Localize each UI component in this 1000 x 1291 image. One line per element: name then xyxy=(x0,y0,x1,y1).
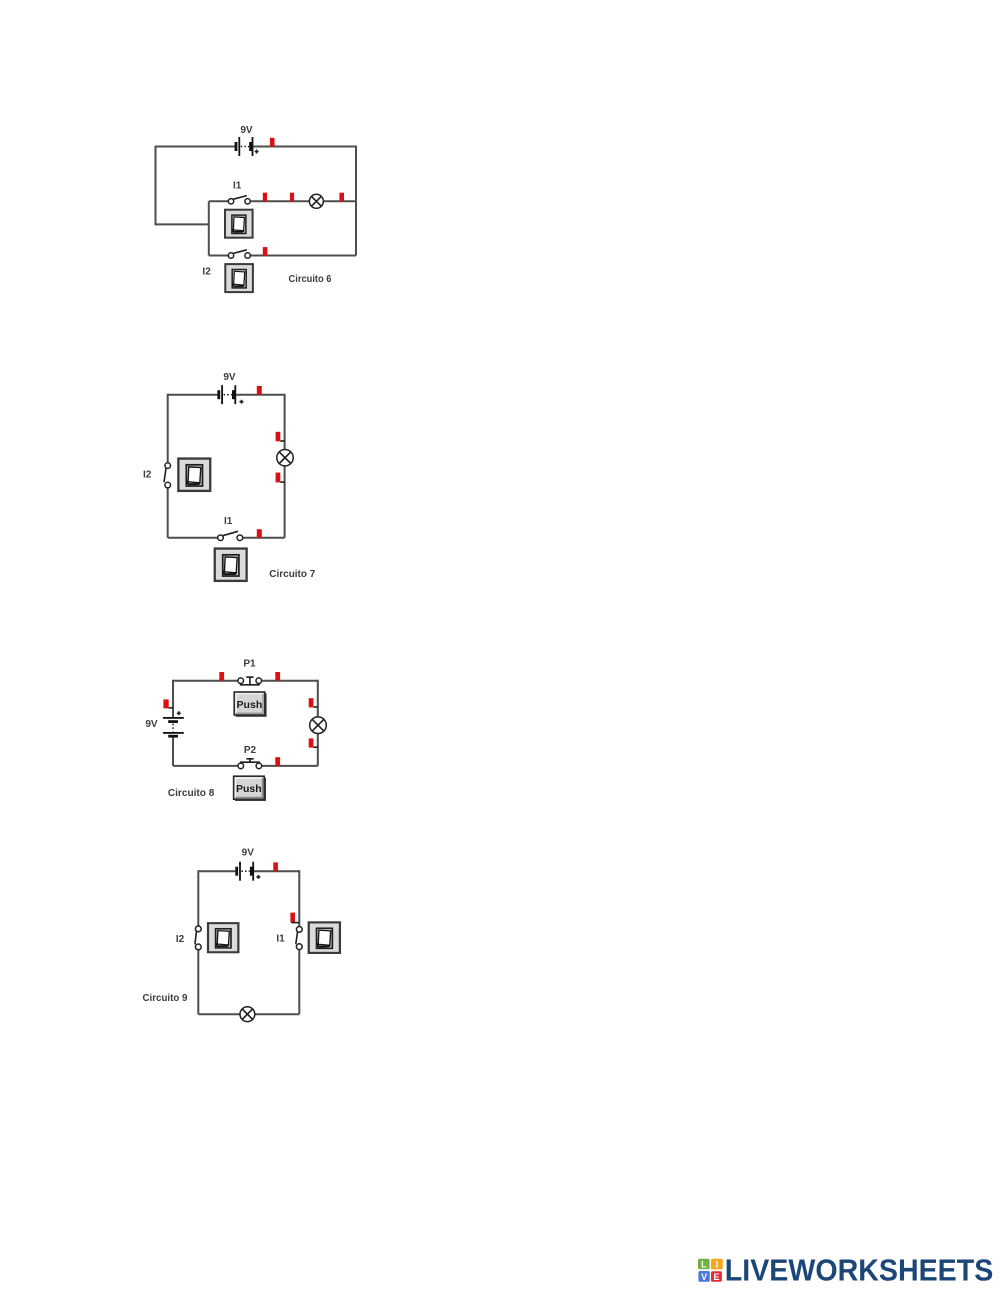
svg-text:I2: I2 xyxy=(202,267,211,278)
svg-text:I1: I1 xyxy=(233,180,242,191)
rocker box I1 (circuit 9) xyxy=(309,922,340,953)
logo square LI green xyxy=(698,1259,710,1270)
svg-text:E: E xyxy=(713,1272,719,1282)
wire C8 left vertical upper xyxy=(172,680,174,718)
svg-text:LIVEWORKSHEETS: LIVEWORKSHEETS xyxy=(725,1253,994,1287)
svg-text:9V: 9V xyxy=(223,372,236,383)
red marker C6 top wire xyxy=(270,138,275,147)
switch I1 contacts (circuit 9) xyxy=(296,927,302,950)
svg-text:L: L xyxy=(701,1259,707,1269)
wire C8 bottom rail right segment xyxy=(259,765,318,767)
switch I2 contacts (circuit 9) xyxy=(195,926,201,950)
red marker C7 right vertical lower xyxy=(276,473,285,483)
wire C9 right vertical lower xyxy=(298,949,300,1014)
svg-text:I2: I2 xyxy=(143,469,152,480)
push switch P2 contacts (circuit 8) xyxy=(238,759,262,769)
battery B3 9V vertical (circuit 8) xyxy=(163,711,184,737)
lamp L2 (circuit 7) xyxy=(277,450,293,466)
wire C6 top rail left segment xyxy=(156,146,235,148)
switch I1 contacts (circuit 6) xyxy=(228,196,250,204)
logo square V blue xyxy=(698,1271,709,1282)
wire C6 bottom rail right segment xyxy=(250,255,356,257)
rocker box I2 (circuit 6) xyxy=(225,264,253,292)
red marker C7 bottom wire xyxy=(257,529,262,538)
rocker box I2 (circuit 7) xyxy=(178,459,210,491)
wire C7 top rail left segment xyxy=(168,394,218,396)
lamp L3 (circuit 8) xyxy=(310,717,327,734)
wire C9 left vertical lower xyxy=(197,950,199,1015)
svg-text:Circuito 9: Circuito 9 xyxy=(143,992,188,1004)
wire C7 bottom rail left segment xyxy=(168,537,221,539)
red marker C6 middle wire 1 xyxy=(263,193,267,202)
red marker C8 top wire left xyxy=(219,672,224,681)
wire C8 left vertical lower xyxy=(172,736,174,766)
svg-text:Circuito 7: Circuito 7 xyxy=(269,568,315,580)
switch I1 contacts (circuit 7) xyxy=(218,531,243,540)
svg-text:Circuito 8: Circuito 8 xyxy=(168,787,215,799)
wire C9 bottom rail xyxy=(198,1013,299,1015)
push switch P1 contacts (circuit 8) xyxy=(238,677,262,685)
svg-text:P1: P1 xyxy=(243,659,256,670)
lamp L1 (circuit 6) xyxy=(309,194,323,208)
switch I2 contacts (circuit 6) xyxy=(228,250,250,258)
logo square I orange xyxy=(711,1259,723,1270)
red marker C8 top wire right xyxy=(275,672,280,681)
push button box P1 (circuit 8) xyxy=(234,692,266,717)
wire C8 top rail left segment xyxy=(173,680,241,682)
wire C7 bottom rail right segment xyxy=(240,537,285,539)
wire C6 left vertical xyxy=(155,146,157,225)
logo square E red xyxy=(711,1271,722,1282)
red marker C6 bottom wire xyxy=(263,247,268,256)
wire C8 top rail right segment xyxy=(259,680,318,682)
red marker C6 middle wire 3 xyxy=(339,193,344,202)
red marker C8 left vertical xyxy=(163,699,173,708)
svg-text:I1: I1 xyxy=(224,516,233,527)
red marker C7 top wire xyxy=(257,386,262,395)
red marker C6 middle wire 2 xyxy=(290,193,294,202)
red marker C7 right vertical upper xyxy=(276,432,285,442)
wire C6 middle rail right segment xyxy=(250,200,356,202)
wire C7 left vertical lower xyxy=(167,488,169,538)
wire C7 right vertical xyxy=(284,394,286,538)
rocker box I2 (circuit 9) xyxy=(208,923,238,952)
red marker C8 right vertical upper xyxy=(309,698,318,707)
lamp L4 (circuit 9) xyxy=(240,1007,255,1022)
wire C9 left vertical upper xyxy=(197,870,199,926)
rocker box I1 (circuit 6) xyxy=(225,210,253,238)
svg-text:V: V xyxy=(701,1272,707,1282)
wire C8 bottom rail left segment xyxy=(173,765,241,767)
wire C6 top rail right segment xyxy=(253,146,356,148)
svg-text:P2: P2 xyxy=(244,745,257,756)
wire C9 top rail right segment xyxy=(254,870,299,872)
svg-text:9V: 9V xyxy=(240,125,253,136)
wire C6 middle rail left segment xyxy=(209,200,229,202)
svg-text:Circuito 6: Circuito 6 xyxy=(289,273,332,285)
wire C6 right vertical xyxy=(355,146,357,256)
red marker C8 right vertical lower xyxy=(309,738,318,747)
wire C6 left connector xyxy=(155,223,209,225)
wire C7 top rail right segment xyxy=(236,394,285,396)
red marker C8 bottom wire xyxy=(275,757,280,766)
battery B2 9V (circuit 7) xyxy=(217,385,243,404)
wire C8 right vertical xyxy=(317,680,319,766)
push button box P2 (circuit 8) xyxy=(234,776,266,801)
switch I2 contacts (circuit 7) xyxy=(164,463,171,488)
svg-text:I2: I2 xyxy=(176,934,185,945)
rocker box I1 (circuit 7) xyxy=(215,549,247,581)
wire C9 right vertical upper xyxy=(298,870,300,926)
wire C6 bottom rail left segment xyxy=(209,255,229,257)
wire C7 left vertical upper xyxy=(167,394,169,463)
svg-text:9V: 9V xyxy=(242,848,255,859)
wire C6 branch vertical xyxy=(208,201,210,255)
battery B1 9V (circuit 6) xyxy=(235,137,259,156)
svg-text:9V: 9V xyxy=(145,719,158,730)
svg-text:I1: I1 xyxy=(276,934,285,945)
wire C9 top rail left segment xyxy=(198,870,235,872)
svg-text:I: I xyxy=(716,1259,719,1269)
red marker C9 right vertical xyxy=(290,913,299,923)
red marker C9 top wire xyxy=(273,862,278,871)
battery B4 9V (circuit 9) xyxy=(235,862,260,881)
